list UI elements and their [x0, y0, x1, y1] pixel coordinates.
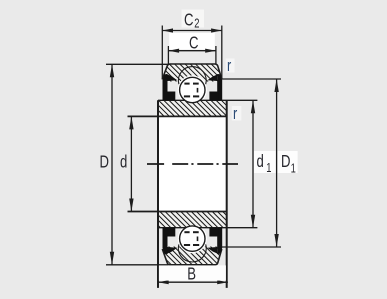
white box behind r top label [226, 59, 235, 73]
D extension top [106, 63, 169, 65]
label d1 [257, 152, 272, 175]
D extension bottom [106, 264, 169, 266]
svg-text:d: d [120, 153, 127, 172]
D1 extension top [222, 78, 282, 80]
outer ring upper section [162, 64, 222, 105]
bore / inner ring white zone [158, 100, 227, 227]
label D1 [281, 152, 296, 175]
seal lower-left [163, 228, 178, 255]
D dimension line [110, 64, 114, 264]
inner ring upper band [128, 100, 258, 116]
d dimension line [129, 116, 133, 211]
C extension lines [167, 46, 169, 64]
d1 dimension line [251, 100, 255, 227]
C dimension line [168, 49, 216, 53]
white box behind r mid label [232, 106, 242, 121]
white box behind C2 label [182, 10, 205, 28]
label C2 [184, 11, 200, 31]
seal lower-right [207, 228, 222, 255]
outer ring lower section [162, 224, 222, 265]
ball upper [180, 77, 205, 102]
bore top line + d extension (top) [128, 115, 227, 117]
white box behind d1 label [254, 151, 276, 173]
svg-text:2: 2 [194, 17, 199, 31]
inner ring lower band [128, 212, 258, 228]
centerline [147, 163, 238, 165]
svg-text:D: D [281, 152, 290, 171]
svg-text:B: B [187, 265, 196, 284]
bore bottom line + d extension (bottom) [128, 211, 227, 213]
white box behind B label [159, 265, 226, 280]
svg-text:r: r [227, 56, 231, 75]
svg-text:C: C [184, 11, 193, 30]
seal upper-left [163, 74, 178, 101]
svg-text:1: 1 [291, 162, 296, 176]
seal upper-right [207, 74, 222, 101]
ball lower [180, 226, 205, 251]
D1 dimension line [274, 79, 278, 247]
svg-text:r: r [233, 104, 237, 123]
svg-text:1: 1 [266, 162, 271, 176]
white box behind D1 label [278, 151, 298, 173]
C2 dimension line [162, 28, 222, 32]
B dimension line [158, 280, 228, 284]
svg-text:d: d [257, 152, 264, 171]
svg-text:C: C [189, 34, 198, 53]
inner ring shoulder line + d1 extension (top) [158, 99, 257, 101]
C2 extension lines [161, 26, 163, 80]
svg-text:D: D [100, 153, 109, 172]
D1 extension bottom [222, 246, 282, 248]
inner ring left face + B extension left [157, 100, 159, 288]
inner ring shoulder line + d1 extension (bottom) [158, 227, 257, 229]
white box behind C label [169, 33, 215, 50]
inner ring right face + B extension right [226, 100, 228, 288]
